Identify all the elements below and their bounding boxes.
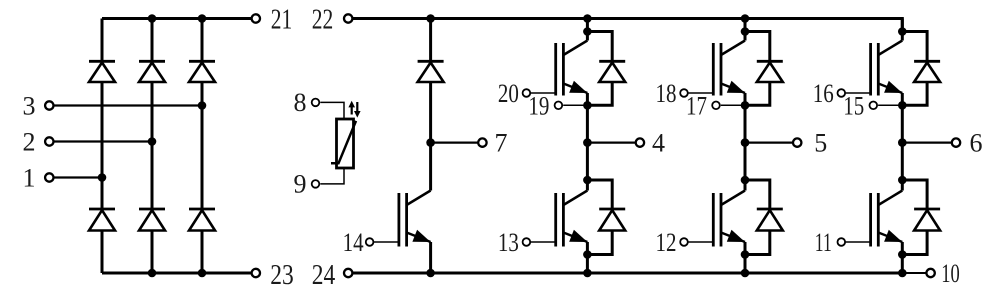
wire aux emitter stub terminal 15: [878, 104, 902, 106]
wire output stub terminal 6: [902, 141, 951, 143]
wire phase U top diode branch: [587, 32, 612, 106]
svg-text:12: 12: [656, 228, 677, 257]
junction input 3 / leg 3: [198, 101, 207, 110]
wire aux emitter stub terminal 19: [563, 104, 587, 106]
wire bottom DC- rail (rectifier side) to terminal 23: [102, 272, 251, 275]
junction top rail / phase V: [741, 14, 750, 23]
wire phase W emitter to bottom rail: [901, 242, 904, 273]
junction phase V emitter/diode node: [741, 250, 750, 259]
IGBT top phase W (gate terminal 16): [871, 41, 903, 96]
terminal 20: [498, 79, 530, 108]
junction phase U bottom collector node: [583, 176, 592, 185]
IGBT bottom phase U (gate terminal 13): [556, 191, 588, 247]
wire phase V bottom diode branch: [745, 180, 770, 255]
freewheel diode top phase W (terminal 15 side): [914, 61, 940, 82]
wire chopper gate stub: [373, 241, 399, 243]
junction phase W emitter/diode node: [898, 250, 907, 259]
junction chopper / terminal 7 node: [426, 138, 435, 147]
svg-text:3: 3: [23, 91, 36, 120]
terminal 23: [252, 260, 294, 291]
junction phase V top collector node: [741, 27, 750, 36]
rectifier diode bottom leg 1: [89, 209, 115, 231]
wire stub to terminal 10: [902, 272, 926, 274]
junction phase V output node: [741, 138, 750, 147]
svg-text:5: 5: [814, 128, 827, 157]
junction bottom rail / rectifier leg 2: [148, 269, 157, 278]
rectifier diode bottom leg 2: [139, 209, 165, 231]
wire gate stub terminal 11: [845, 241, 871, 243]
rectifier diode top leg 2: [139, 61, 165, 82]
wire output stub terminal 4: [587, 141, 635, 143]
wire phase U emitter to bottom rail: [586, 242, 589, 273]
terminal 24 label: [312, 260, 336, 291]
junction bottom rail / phase W: [898, 269, 907, 278]
terminal 21: [252, 5, 293, 36]
junction phase U output node: [583, 138, 592, 147]
svg-text:11: 11: [815, 228, 832, 257]
junction top rail / rectifier leg 2: [148, 14, 157, 23]
svg-text:22: 22: [312, 5, 334, 36]
wire phase U midleg vertical: [586, 93, 589, 191]
terminal 2: [23, 127, 54, 156]
svg-text:7: 7: [495, 128, 508, 157]
svg-text:14: 14: [343, 228, 364, 257]
rectifier diode top leg 3: [189, 61, 215, 82]
wire phase U top rail to collector node: [586, 19, 589, 41]
svg-text:16: 16: [813, 79, 834, 108]
junction phase U emitter/aux node: [583, 101, 592, 110]
freewheel diode bottom phase W: [914, 209, 940, 231]
wire phase W top rail to collector node: [901, 19, 904, 41]
wire rectifier leg 2 vertical: [151, 19, 154, 274]
junction bottom rail / phase U: [583, 269, 592, 278]
chopper diode: [418, 61, 444, 82]
svg-text:8: 8: [294, 88, 307, 117]
junction phase W top collector node: [898, 27, 907, 36]
freewheel diode top phase U (terminal 19 side): [599, 61, 625, 82]
junction input 2 / leg 2: [148, 137, 157, 146]
wire terminal 8 to NTC top: [320, 102, 344, 119]
IGBT bottom phase V (gate terminal 12): [713, 191, 745, 247]
terminal 24: [344, 269, 352, 277]
freewheel diode top phase V (terminal 17 side): [757, 61, 783, 82]
wire AC input 3: [54, 104, 202, 106]
wire AC input 1: [54, 176, 102, 178]
wire aux emitter stub terminal 17: [721, 104, 745, 106]
NTC thermistor body (terminals 8-9): [337, 119, 354, 168]
svg-text:20: 20: [498, 79, 519, 108]
wire rectifier leg 1 vertical: [101, 19, 104, 274]
wire gate stub terminal 18: [688, 92, 714, 94]
terminal 14: [343, 228, 374, 257]
terminal 11: [815, 228, 845, 257]
junction phase V emitter/aux node: [741, 101, 750, 110]
terminal 13: [498, 228, 530, 257]
svg-text:19: 19: [528, 92, 549, 121]
wire phase U bottom diode branch: [587, 180, 612, 255]
rectifier diode top leg 1: [89, 61, 115, 82]
wire rectifier leg 3 vertical: [201, 19, 204, 274]
svg-text:9: 9: [294, 170, 307, 199]
wire gate stub terminal 12: [688, 241, 714, 243]
junction phase U top collector node: [583, 27, 592, 36]
IGBT bottom phase W (gate terminal 11): [871, 191, 903, 247]
svg-text:21: 21: [271, 5, 293, 36]
wire gate stub terminal 16: [845, 92, 871, 94]
terminal 22: [344, 14, 352, 22]
svg-text:2: 2: [23, 127, 36, 156]
junction top rail / phase U: [583, 14, 592, 23]
svg-text:10: 10: [941, 259, 960, 288]
terminal 10: [926, 259, 959, 288]
junction bottom rail / phase V: [741, 269, 750, 278]
svg-text:23: 23: [270, 260, 294, 291]
terminal 18: [656, 79, 688, 108]
junction phase W emitter/aux node: [898, 101, 907, 110]
wire phase V top rail to collector node: [744, 19, 747, 41]
wire phase W bottom diode branch: [902, 180, 927, 255]
terminal 6: [952, 128, 983, 157]
wire chopper collector branch vertical: [429, 19, 432, 191]
terminal 15: [843, 92, 877, 121]
NTC thermistor diagonal stroke: [331, 121, 356, 163]
terminal 7: [478, 128, 507, 157]
wire gate stub terminal 13: [530, 241, 556, 243]
junction top rail / rectifier leg 3: [198, 14, 207, 23]
terminal 1: [23, 163, 54, 192]
wire gate stub terminal 20: [530, 92, 556, 94]
IGBT top phase V (gate terminal 18): [713, 41, 745, 96]
svg-text:18: 18: [656, 79, 677, 108]
wire phase V emitter to bottom rail: [744, 242, 747, 273]
terminal 12: [656, 228, 688, 257]
svg-text:13: 13: [498, 228, 519, 257]
wire node 7 stub: [431, 141, 478, 143]
junction phase V bottom collector node: [741, 176, 750, 185]
junction input 1 / leg 1: [98, 173, 107, 182]
svg-text:4: 4: [652, 128, 665, 157]
rectifier diode bottom leg 3: [189, 209, 215, 231]
svg-text:15: 15: [843, 92, 864, 121]
terminal 19: [528, 92, 562, 121]
svg-text:24: 24: [312, 260, 336, 291]
wire chopper emitter to bottom rail: [429, 242, 432, 273]
junction bottom rail / rectifier leg 3: [198, 269, 207, 278]
wire phase V midleg vertical: [744, 93, 747, 191]
NTC up-arrow mark: [348, 101, 355, 115]
IGBT top phase U (gate terminal 20): [556, 41, 588, 96]
wire bottom DC- rail (inverter side) from terminal 24: [353, 272, 903, 275]
freewheel diode bottom phase V: [757, 209, 783, 231]
terminal 16: [813, 79, 845, 108]
chopper IGBT (gate terminal 14): [399, 191, 431, 247]
terminal 17: [686, 92, 720, 121]
freewheel diode bottom phase U: [599, 209, 625, 231]
wire AC input 2: [54, 140, 152, 142]
wire phase W top diode branch: [902, 32, 927, 106]
svg-text:6: 6: [970, 128, 983, 157]
terminal 22 label: [312, 5, 334, 36]
svg-text:1: 1: [23, 163, 36, 192]
svg-text:17: 17: [686, 92, 707, 121]
wire terminal 9 to NTC bottom: [320, 168, 344, 184]
junction bottom rail / chopper: [426, 269, 435, 278]
wire output stub terminal 5: [745, 141, 793, 143]
terminal 4: [636, 128, 665, 157]
terminal 9: [294, 170, 320, 199]
wire phase V top diode branch: [745, 32, 770, 106]
terminal 5: [793, 128, 827, 157]
junction top rail / chopper: [426, 14, 435, 23]
wire phase W midleg vertical: [901, 93, 904, 191]
junction phase W output node: [898, 138, 907, 147]
wire top DC+ rail (rectifier side) to terminal 21: [102, 17, 251, 20]
terminal 8: [294, 88, 320, 117]
terminal 3: [23, 91, 54, 120]
junction phase U emitter/diode node: [583, 250, 592, 259]
wire top DC+ rail (inverter side) from terminal 22: [353, 19, 903, 32]
NTC down-arrow mark: [354, 102, 361, 118]
junction phase W bottom collector node: [898, 176, 907, 185]
